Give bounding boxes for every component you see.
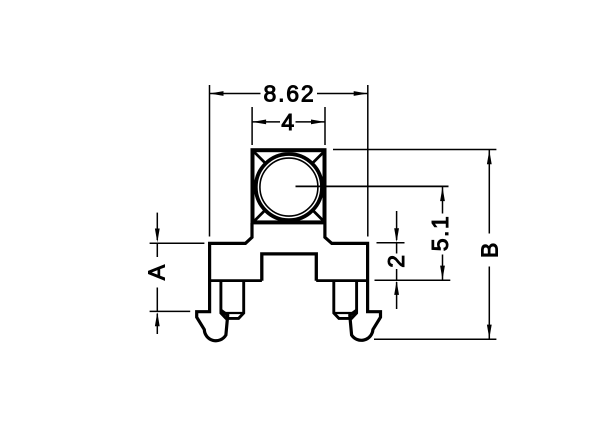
right pin with chamfered tip — [334, 281, 357, 318]
dim 4 arrow right — [311, 120, 325, 125]
dim 5.1 upper segment — [442, 187, 444, 214]
svg-text:2: 2 — [383, 255, 409, 268]
central notch (inverted U) — [262, 254, 317, 281]
svg-text:8.62: 8.62 — [264, 81, 316, 107]
dim A upper tail — [156, 213, 158, 240]
circle outer (lens) — [256, 154, 322, 220]
extension line from hook bottom to dim B — [374, 338, 496, 340]
body outline left: neck, chamfer, top, outer wall, hook shank and barb — [197, 223, 252, 341]
dim A line upper segment — [156, 243, 158, 257]
dim 8.62 extension line right — [367, 85, 369, 237]
dim 8.62 arrow left — [210, 91, 224, 96]
svg-text:B: B — [476, 243, 502, 258]
dim B upper segment — [488, 150, 490, 234]
dim A arrow up — [155, 312, 160, 326]
dim 4 line right segment — [296, 121, 326, 123]
dim 8.62 line left segment — [210, 93, 261, 95]
svg-text:4: 4 — [281, 109, 294, 135]
dim 2 arrow down — [394, 228, 399, 242]
circle inner — [260, 158, 318, 216]
dim A arrow down — [155, 229, 160, 243]
right pin chamfer line — [334, 312, 357, 314]
corner diagonal top-left — [253, 151, 266, 164]
dim 4 extension line left — [251, 107, 253, 145]
square body of lens holder — [253, 150, 325, 222]
dim 2 lower tail — [396, 282, 398, 309]
center line from circle to dim 5.1 — [296, 185, 449, 187]
dim A top extension line — [150, 242, 205, 244]
dim A bottom extension line — [150, 310, 191, 312]
corner diagonal top-right — [312, 151, 325, 164]
dim 2 upper tail — [396, 211, 398, 240]
dim 2 arrow up — [394, 281, 399, 295]
dim 8.62 arrow right — [354, 91, 368, 96]
svg-text:5.1: 5.1 — [427, 215, 453, 251]
dim 5.1 lower segment — [442, 255, 444, 280]
dim B arrow up — [487, 150, 492, 164]
dim 5.1 arrow up — [440, 187, 445, 201]
svg-text:A: A — [144, 264, 170, 280]
extension line from ledge to dims 2 and 5.1 — [375, 279, 451, 281]
bottom ledge left — [208, 279, 262, 282]
extension tick for dim 2 top — [377, 242, 405, 244]
body outline right: neck, chamfer, top, outer wall, hook shank and barb — [325, 223, 381, 340]
dim A line lower segment — [156, 288, 158, 312]
corner diagonal bottom-right — [312, 209, 325, 222]
dim 8.62 extension line left — [209, 85, 211, 237]
left pin chamfer line — [221, 312, 244, 314]
dim 2 upper stub — [396, 244, 398, 254]
corner diagonal bottom-left — [253, 209, 266, 222]
dim 4 line left segment — [252, 121, 280, 123]
dim B lower segment — [488, 267, 490, 339]
dim 8.62 line right segment — [317, 93, 368, 95]
bottom ledge right — [316, 279, 369, 282]
dim 5.1 arrow down — [440, 266, 445, 280]
dim B arrow down — [487, 325, 492, 339]
dim 4 extension line right — [324, 107, 326, 145]
dim A lower tail — [156, 314, 158, 335]
dim 4 arrow left — [252, 120, 266, 125]
dim 2 lower stub — [396, 269, 398, 280]
left pin with chamfered tip — [221, 281, 244, 318]
extension line from square top to dim B — [333, 149, 496, 151]
